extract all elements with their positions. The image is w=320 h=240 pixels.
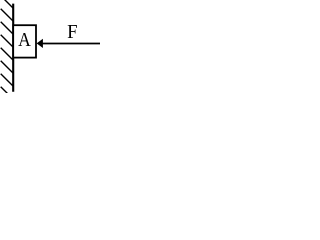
svg-text:F: F [67, 22, 78, 44]
svg-text:A: A [18, 29, 31, 51]
